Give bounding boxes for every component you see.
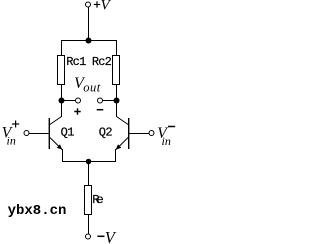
svg-text:ybx8.cn: ybx8.cn	[8, 203, 67, 219]
svg-text:Rc1 Rc2: Rc1 Rc2	[66, 55, 112, 69]
svg-text:Q2: Q2	[99, 126, 113, 140]
svg-text:Re: Re	[92, 193, 104, 207]
svg-text:in: in	[7, 134, 16, 148]
svg-text:out: out	[83, 81, 101, 95]
svg-text:in: in	[162, 134, 171, 148]
svg-text:Q1: Q1	[61, 126, 75, 140]
